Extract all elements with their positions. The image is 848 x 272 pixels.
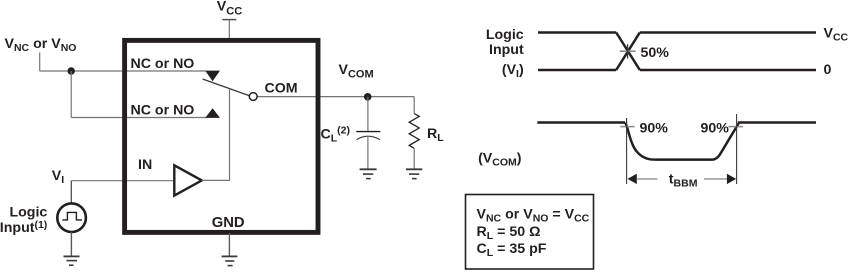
wire GND down — [228, 233, 230, 256]
svg-text:90%: 90% — [640, 121, 669, 137]
90% measurement line left vertical — [626, 118, 628, 184]
svg-text:VCC: VCC — [217, 0, 242, 17]
resistor RL zigzag — [409, 114, 419, 149]
tBBM arrow left head — [628, 174, 637, 184]
svg-text:RL = 50 Ω: RL = 50 Ω — [477, 224, 541, 242]
wire to second NC pin — [71, 117, 206, 119]
svg-text:VI: VI — [52, 168, 64, 186]
label Logic Input (VI) timing — [486, 27, 524, 80]
svg-text:Input(1): Input(1) — [0, 219, 47, 236]
wire capacitor top lead — [367, 97, 369, 131]
svg-text:Input: Input — [489, 42, 524, 58]
svg-text:(VI): (VI) — [502, 62, 524, 80]
COM terminal circle — [249, 93, 257, 101]
wire COM output — [257, 96, 414, 98]
svg-text:VNC or VNO = VCC: VNC or VNO = VCC — [477, 207, 590, 225]
tBBM arrow left line — [637, 178, 658, 180]
node junction dot upper — [68, 67, 75, 74]
svg-text:VCC: VCC — [824, 26, 848, 44]
switch pole diagonal — [203, 79, 251, 96]
wire resistor bottom lead — [413, 148, 415, 168]
ground symbol under source — [64, 256, 80, 265]
svg-text:RL: RL — [427, 126, 444, 144]
buffer driver triangle — [174, 165, 202, 195]
svg-text:0: 0 — [824, 62, 832, 78]
pulse symbol inside source — [62, 212, 82, 220]
wire capacitor bottom lead — [367, 136, 369, 169]
waveform VCOM high left — [537, 121, 625, 124]
switch NC contact triangle (down) — [205, 71, 220, 82]
ground symbol under RL — [406, 169, 422, 178]
svg-text:CL = 35 pF: CL = 35 pF — [477, 241, 547, 259]
label Logic Input(1) — [0, 205, 47, 236]
waveform VCOM dip — [625, 123, 738, 160]
svg-text:50%: 50% — [641, 45, 670, 61]
pulse source circle — [57, 203, 86, 232]
wire VNC horizontal to NC pin — [40, 70, 206, 72]
power rail VCC T-symbol — [222, 20, 236, 39]
node junction dot VCOM — [364, 93, 372, 101]
50% crossing tick horizontal — [620, 50, 636, 52]
tBBM arrow right head — [727, 174, 736, 184]
svg-text:90%: 90% — [701, 121, 730, 137]
waveform VI low segment right — [640, 69, 816, 72]
waveform VI high segment right — [640, 31, 816, 34]
wire resistor top lead — [413, 97, 415, 114]
waveform VI low segment left — [538, 69, 616, 72]
svg-text:GND: GND — [212, 215, 245, 231]
wire VNC stub vertical — [39, 53, 41, 72]
wire junction down — [70, 71, 72, 118]
capacitor CL top plate — [356, 131, 380, 133]
ground symbol under GND — [222, 256, 238, 265]
svg-text:CL(2): CL(2) — [321, 125, 351, 145]
DUT box U1 — [125, 40, 318, 232]
switch control line from driver — [229, 90, 231, 181]
svg-text:Logic: Logic — [486, 27, 524, 43]
90% measurement line right vertical — [736, 114, 738, 184]
svg-text:VNC or VNO: VNC or VNO — [5, 36, 77, 54]
90% tick left horizontal — [620, 126, 634, 128]
waveform VCOM high right — [738, 121, 816, 124]
waveform VI high segment left — [538, 31, 616, 34]
ground symbol under CL — [360, 169, 377, 178]
svg-text:IN: IN — [138, 157, 152, 173]
waveform VI falling edge — [616, 33, 640, 71]
90% tick right horizontal — [729, 126, 744, 128]
switch NO contact triangle (up) — [205, 108, 220, 118]
wire source to ground — [70, 232, 72, 256]
svg-text:COM: COM — [265, 81, 298, 97]
wire VI horizontal — [71, 180, 175, 182]
conditions box — [466, 195, 594, 270]
capacitor CL curved plate — [357, 136, 380, 139]
wire buffer output — [202, 179, 230, 181]
svg-text:tBBM: tBBM — [669, 172, 698, 190]
label VNC or VNO — [5, 36, 77, 54]
svg-text:(VCOM): (VCOM) — [478, 150, 522, 168]
50% crossing tick vertical — [627, 44, 629, 58]
svg-text:VCOM: VCOM — [339, 62, 374, 80]
waveform VI rising edge — [616, 33, 640, 71]
svg-text:NC or NO: NC or NO — [131, 56, 195, 72]
svg-text:NC or NO: NC or NO — [131, 103, 195, 119]
tBBM arrow right line — [704, 178, 727, 180]
wire VI vertical to source — [70, 181, 72, 204]
label VCC supply — [217, 0, 242, 17]
